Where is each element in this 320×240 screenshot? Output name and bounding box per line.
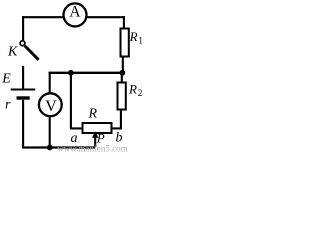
node junction dot bus to rheostat branch xyxy=(68,70,74,76)
svg-text:R: R xyxy=(128,82,137,97)
svg-text:K: K xyxy=(7,44,18,59)
bottom bus wire xyxy=(22,146,96,148)
switch K pivot circle xyxy=(20,41,25,46)
wiper arrow P shaft xyxy=(94,137,96,148)
wire R1 bottom to middle bus junction xyxy=(122,57,124,74)
wiper arrowhead xyxy=(92,131,98,138)
resistor R1 body xyxy=(121,29,129,57)
resistor R2 body xyxy=(118,83,126,110)
battery cell short plate xyxy=(17,96,30,99)
svg-text:E: E xyxy=(1,72,11,87)
wire battery to bottom bus xyxy=(22,100,24,149)
wire top-left horizontal xyxy=(22,16,64,18)
wire bus corner down to voltmeter xyxy=(49,72,51,94)
svg-text:R: R xyxy=(88,107,98,122)
wire voltmeter bottom to bottom bus xyxy=(49,116,51,148)
wire bus branch down to rheostat a stub xyxy=(70,73,82,129)
node junction dot voltmeter/bottom bus xyxy=(47,145,53,151)
wire left branch top vertical xyxy=(22,16,24,40)
wire top-right horizontal xyxy=(87,16,126,18)
svg-text:r: r xyxy=(5,98,11,113)
wire R2 bottom down to rheostat b stub xyxy=(111,109,122,128)
svg-text:1: 1 xyxy=(138,37,143,47)
wire right branch top corner down to R1 xyxy=(123,16,125,28)
node junction dot R1/R2/bus xyxy=(119,70,125,76)
svg-text:V: V xyxy=(45,98,57,115)
svg-text:A: A xyxy=(69,4,81,21)
wire R2 top from junction xyxy=(121,73,123,83)
switch K blade xyxy=(25,46,39,60)
svg-text:www.manfen5.com: www.manfen5.com xyxy=(57,143,127,153)
ammeter U-A circle xyxy=(64,3,87,26)
svg-text:R: R xyxy=(129,29,138,44)
wire switch to battery xyxy=(22,66,24,89)
battery cell long plate xyxy=(11,88,36,90)
svg-text:2: 2 xyxy=(138,89,143,99)
middle bus wire xyxy=(49,72,124,74)
rheostat R body xyxy=(83,123,112,133)
voltmeter U-V circle xyxy=(39,93,62,116)
